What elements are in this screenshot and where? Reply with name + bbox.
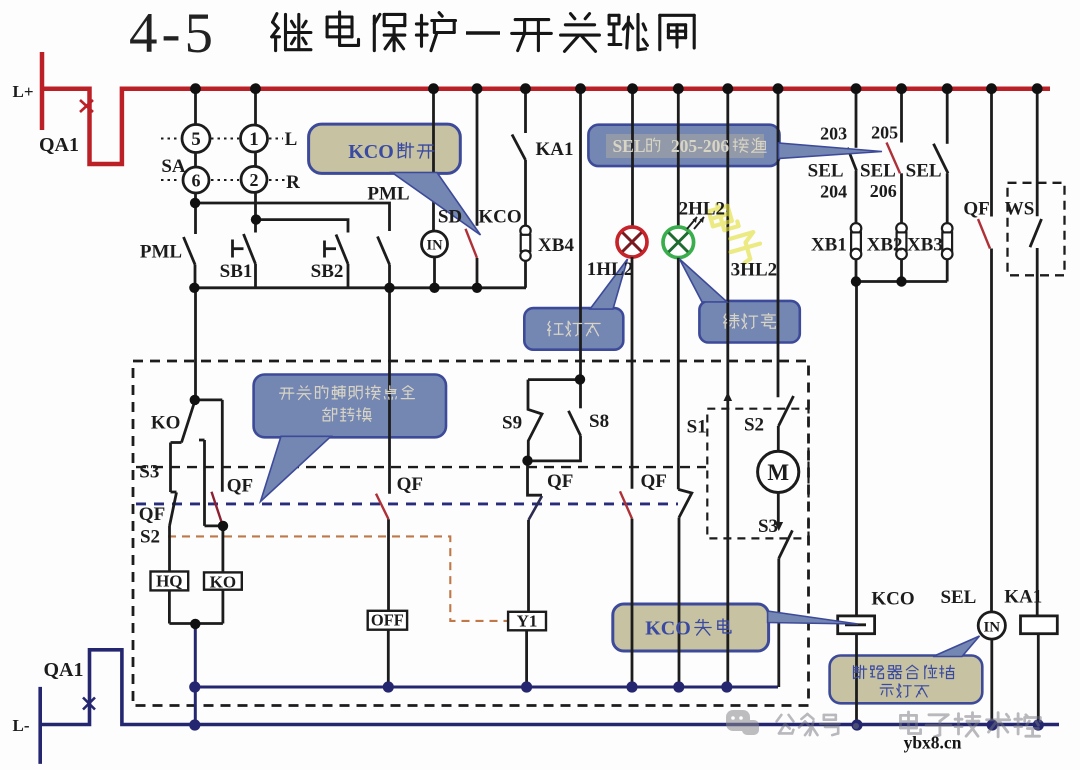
- svg-text:205-206: 205-206: [671, 136, 730, 156]
- svg-text:HQ: HQ: [156, 572, 182, 591]
- svg-text:SEL: SEL: [808, 161, 844, 182]
- svg-text:SB1: SB1: [220, 261, 253, 282]
- svg-text:QA1: QA1: [44, 659, 84, 681]
- svg-text:QF: QF: [227, 476, 253, 497]
- svg-text:KA1: KA1: [536, 139, 574, 160]
- svg-text:6: 6: [192, 171, 201, 191]
- svg-text:S2: S2: [744, 415, 764, 436]
- svg-text:2HL2: 2HL2: [679, 199, 725, 220]
- svg-text:L: L: [285, 129, 298, 150]
- svg-text:S3: S3: [139, 462, 159, 483]
- svg-text:QF: QF: [641, 471, 667, 492]
- svg-text:KO: KO: [210, 572, 236, 591]
- svg-text:1: 1: [249, 129, 259, 150]
- svg-text:XB1: XB1: [811, 235, 847, 256]
- svg-text:S1: S1: [687, 417, 707, 438]
- svg-text:KCO: KCO: [645, 618, 691, 640]
- svg-text:3HL2: 3HL2: [731, 260, 777, 281]
- svg-text:205: 205: [871, 123, 898, 143]
- svg-text:206: 206: [870, 181, 897, 201]
- svg-text:IN: IN: [983, 620, 1000, 636]
- svg-text:S2: S2: [140, 527, 160, 548]
- svg-text:KCO: KCO: [478, 207, 521, 228]
- svg-text:PML: PML: [140, 242, 182, 263]
- svg-text:IN: IN: [426, 238, 443, 254]
- svg-text:KA1: KA1: [1004, 587, 1042, 608]
- svg-text:SEL: SEL: [860, 161, 896, 182]
- svg-text:L+: L+: [12, 82, 33, 101]
- svg-text:KCO: KCO: [871, 589, 914, 610]
- svg-text:L-: L-: [13, 716, 30, 735]
- svg-text:203: 203: [820, 124, 847, 144]
- svg-text:S8: S8: [589, 411, 609, 432]
- svg-text:SB2: SB2: [311, 261, 344, 282]
- svg-text:QF: QF: [963, 199, 989, 220]
- svg-text:S3: S3: [758, 516, 778, 537]
- svg-text:4-5: 4-5: [129, 2, 217, 65]
- svg-text:SEL: SEL: [612, 136, 645, 156]
- svg-text:QF: QF: [139, 504, 165, 525]
- svg-text:2: 2: [250, 170, 259, 190]
- svg-text:R: R: [286, 172, 300, 193]
- svg-text:SD: SD: [438, 207, 462, 228]
- svg-text:ybx8.cn: ybx8.cn: [904, 733, 962, 753]
- svg-text:204: 204: [820, 182, 847, 202]
- svg-text:XB3: XB3: [907, 235, 943, 256]
- svg-text:5: 5: [191, 129, 201, 150]
- svg-text:PML: PML: [367, 184, 409, 205]
- svg-text:KO: KO: [151, 413, 181, 434]
- svg-text:QF: QF: [547, 471, 573, 492]
- svg-text:OFF: OFF: [371, 611, 404, 630]
- svg-text:QA1: QA1: [39, 134, 79, 156]
- svg-text:Y1: Y1: [517, 612, 538, 631]
- svg-text:XB4: XB4: [538, 235, 574, 256]
- svg-text:SEL: SEL: [940, 587, 976, 608]
- svg-text:XB2: XB2: [867, 235, 903, 256]
- svg-text:KCO: KCO: [348, 141, 394, 163]
- svg-text:QF: QF: [397, 474, 423, 495]
- svg-text:1HL2: 1HL2: [587, 259, 633, 280]
- svg-text:WS: WS: [1005, 199, 1035, 220]
- svg-text:SA: SA: [161, 156, 186, 177]
- svg-text:M: M: [767, 460, 789, 485]
- svg-text:SEL: SEL: [906, 161, 942, 182]
- svg-text:S9: S9: [502, 413, 522, 434]
